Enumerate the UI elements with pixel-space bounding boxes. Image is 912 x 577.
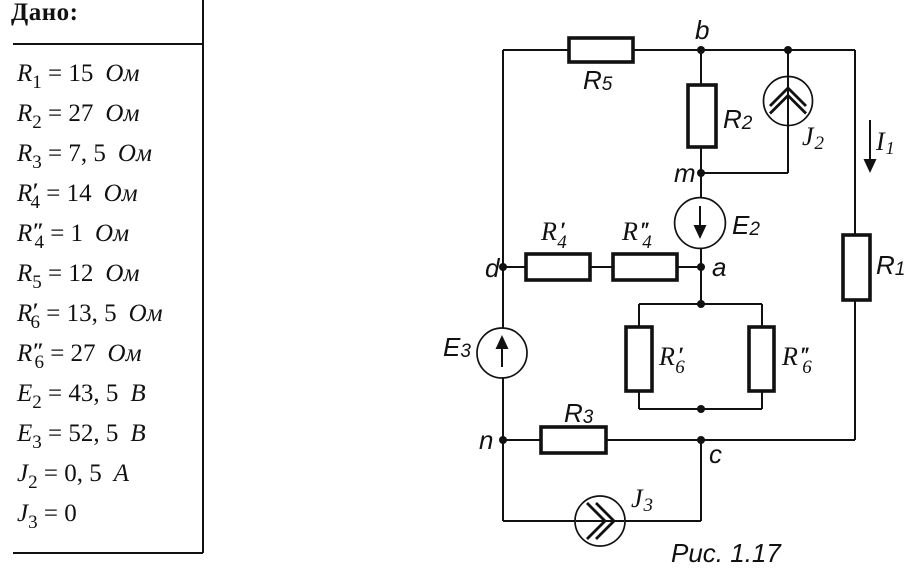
resistor R1 <box>843 235 905 300</box>
svg-text:R″4: R″4 <box>621 217 652 253</box>
wire parallel left <box>638 304 640 409</box>
resistor R6pp <box>749 327 812 391</box>
svg-text:n: n <box>479 425 493 455</box>
svg-text:R′6: R′6 <box>658 342 685 378</box>
caption Рис. 1.17 <box>671 538 782 568</box>
resistor R6p <box>626 327 685 391</box>
wire J2-m <box>701 172 788 174</box>
node c <box>697 436 722 469</box>
value E3 <box>17 420 146 448</box>
resistor R3 <box>541 398 606 453</box>
value R6pp <box>17 340 142 368</box>
wire b-m <box>700 50 702 173</box>
wire left rail d-n <box>502 50 504 521</box>
wire J2 vertical <box>787 50 789 173</box>
current source J3 <box>575 484 653 546</box>
svg-text:c: c <box>709 439 722 469</box>
svg-text:Рис. 1.17: Рис. 1.17 <box>671 538 782 568</box>
wire parallel bottom <box>639 408 762 410</box>
resistor R4p <box>526 217 590 280</box>
wire bottom J3 <box>503 520 701 522</box>
wire d-a <box>503 266 701 268</box>
node parallel bottom junction <box>697 405 705 413</box>
value R1 <box>17 60 139 88</box>
wire n-c <box>503 439 855 441</box>
svg-text:d: d <box>485 253 501 283</box>
node J2 top junction <box>784 46 792 54</box>
wire right rail <box>854 50 856 440</box>
svg-text:R″6: R″6 <box>781 342 812 378</box>
node b <box>695 15 709 54</box>
svg-text:R2: R2 <box>723 104 753 134</box>
value R4pp <box>17 220 129 248</box>
svg-text:J3: J3 <box>631 484 653 516</box>
svg-text:b: b <box>695 15 709 45</box>
svg-text:a: a <box>712 252 726 282</box>
value R2 <box>17 100 139 128</box>
resistor R4pp <box>613 217 677 280</box>
node a <box>697 252 726 282</box>
emf source E3 <box>443 328 527 378</box>
svg-text:R′4: R′4 <box>540 217 567 253</box>
svg-text:E2: E2 <box>732 210 760 240</box>
svg-text:I1: I1 <box>875 127 895 158</box>
value E2 <box>17 380 146 408</box>
emf source E2 <box>675 198 761 249</box>
svg-text:J2: J2 <box>802 122 825 154</box>
svg-text:E3: E3 <box>443 332 471 362</box>
svg-text:m: m <box>674 158 696 188</box>
wire a down <box>700 267 702 304</box>
wire parallel top <box>639 303 762 305</box>
svg-text:R1: R1 <box>876 250 905 280</box>
svg-text:R5: R5 <box>583 65 613 95</box>
value R5 <box>17 260 139 288</box>
value R3 <box>17 140 152 168</box>
panel title <box>11 0 78 27</box>
wire m-a <box>700 173 702 267</box>
resistor R5 <box>569 38 633 95</box>
value R6p <box>17 300 163 328</box>
wire c down <box>700 440 702 521</box>
current source J2 <box>764 77 825 155</box>
resistor R2 <box>688 85 753 147</box>
value R4p <box>17 180 138 208</box>
svg-text:R3: R3 <box>564 398 594 428</box>
node d <box>485 253 507 283</box>
current arrow I1 <box>864 120 895 173</box>
node parallel top junction <box>697 300 705 308</box>
value J2 <box>17 460 129 488</box>
value J3 <box>17 500 77 528</box>
wire top b <box>503 49 855 51</box>
node n <box>479 425 507 455</box>
wire parallel right <box>761 304 763 409</box>
node m <box>674 158 705 188</box>
